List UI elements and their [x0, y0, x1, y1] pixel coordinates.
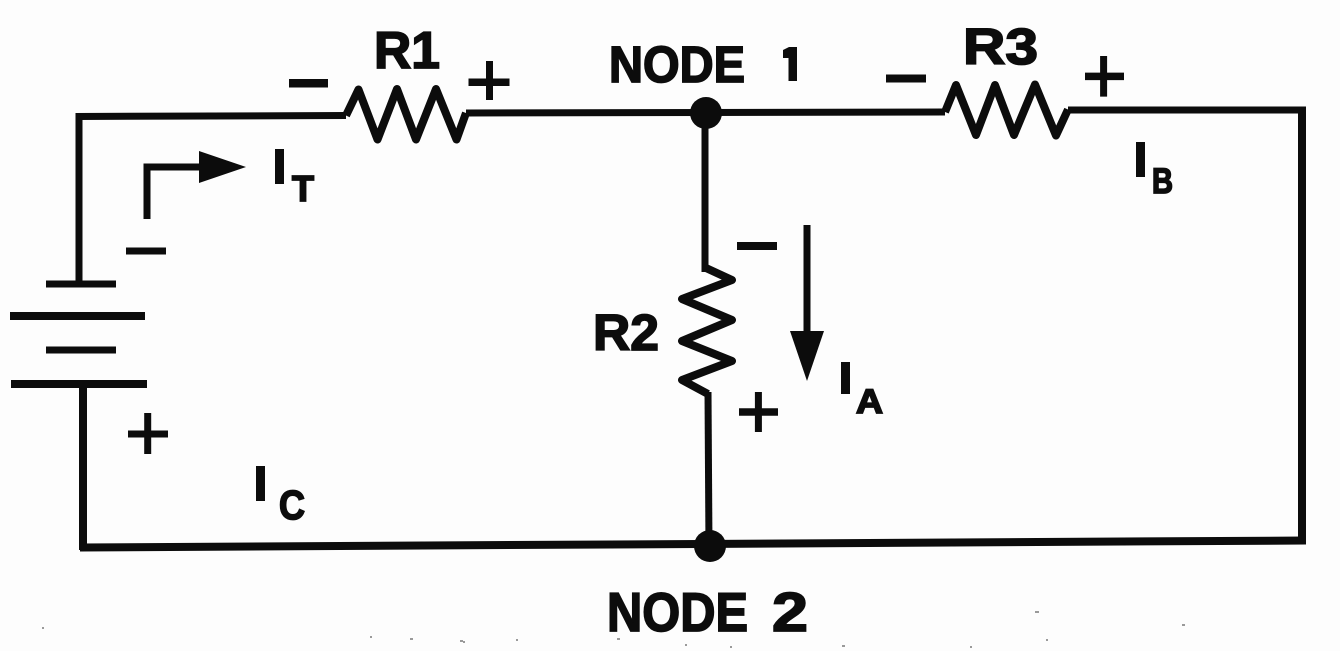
node NODE 2 junction dot — [694, 530, 726, 562]
svg-text:C: C — [279, 482, 305, 528]
scan speckle dots (faint) — [42, 611, 1185, 648]
wire node 1 to R3 — [706, 109, 945, 117]
label NODE 1 — [609, 36, 797, 93]
wire bottom segment — [80, 541, 1306, 548]
polarity plus right of R1 — [469, 78, 510, 86]
wire battery positive lead — [79, 381, 87, 550]
svg-text:2: 2 — [772, 581, 808, 643]
resistor R2 — [682, 268, 732, 394]
wire top-left segment — [76, 116, 346, 117]
svg-text:T: T — [292, 168, 314, 209]
current arrow I_T — [147, 151, 246, 219]
svg-text:NODE: NODE — [607, 581, 748, 643]
resistor R1 — [346, 89, 466, 140]
wire R3 to top-right corner — [1068, 107, 1306, 114]
wire battery negative lead — [76, 113, 83, 287]
svg-text:A: A — [856, 383, 883, 421]
polarity plus right of R3 — [1085, 73, 1124, 81]
svg-text:R1: R1 — [374, 22, 440, 80]
polarity minus left of R1 — [289, 79, 328, 88]
svg-text:B: B — [1152, 162, 1173, 201]
polarity minus above R2 — [737, 242, 777, 250]
node NODE 1 junction dot — [690, 97, 722, 129]
label I_C — [256, 466, 305, 528]
svg-text:R2: R2 — [593, 304, 659, 361]
wire R2 to node 2 — [708, 392, 709, 549]
battery V1 — [10, 284, 147, 384]
label I_B — [1136, 142, 1173, 201]
polarity minus battery top — [126, 248, 166, 255]
label NODE 2 — [607, 581, 808, 643]
polarity plus below R2 — [739, 408, 778, 416]
current arrow I_A — [790, 225, 824, 381]
resistor R3 — [945, 85, 1068, 136]
polarity plus battery bottom — [128, 431, 168, 438]
label I_A — [841, 362, 883, 421]
label I_T — [275, 149, 314, 209]
svg-text:NODE: NODE — [609, 36, 745, 93]
polarity minus left of R3 — [886, 75, 926, 83]
wire right side — [1298, 107, 1306, 544]
svg-text:R3: R3 — [963, 18, 1038, 75]
wire node 1 to R2 — [702, 113, 709, 272]
wire R1 to node 1 — [466, 109, 706, 117]
